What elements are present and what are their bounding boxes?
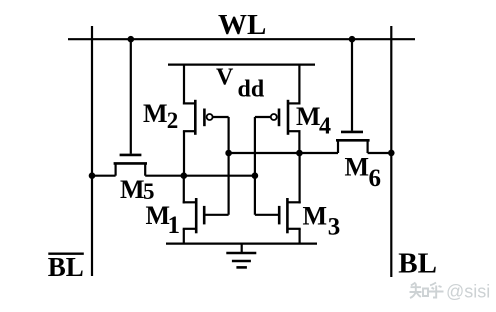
transistor M5 access (left) bbox=[114, 155, 147, 176]
svg-text:M: M bbox=[345, 152, 370, 181]
svg-text:4: 4 bbox=[319, 114, 331, 140]
node BL-M6 junction bbox=[388, 150, 395, 157]
svg-text:M: M bbox=[143, 99, 168, 128]
node WL-M6 junction bbox=[349, 36, 356, 43]
transistor M2 PMOS (left pull-up) bbox=[183, 65, 229, 177]
transistor M1 NMOS (left pull-down) bbox=[183, 176, 229, 244]
label Vdd bbox=[216, 65, 265, 103]
svg-text:2: 2 bbox=[167, 108, 179, 133]
node BLB-M5 junction bbox=[89, 172, 96, 179]
transistor M3 NMOS (right pull-down) bbox=[255, 153, 301, 244]
svg-text:1: 1 bbox=[168, 212, 181, 239]
svg-text:6: 6 bbox=[369, 165, 382, 192]
wire M6 gate stem bbox=[351, 39, 353, 131]
svg-text:M: M bbox=[146, 201, 171, 230]
label BLB (with overline) bbox=[48, 252, 84, 282]
node M4 drain junction bbox=[296, 150, 303, 157]
svg-text:@sisi: @sisi bbox=[446, 282, 490, 302]
svg-text:dd: dd bbox=[238, 76, 265, 102]
ground symbol bbox=[226, 244, 256, 268]
svg-text:V: V bbox=[216, 65, 234, 91]
transistor M6 access (right) bbox=[336, 132, 370, 153]
label M3 bbox=[303, 202, 341, 241]
node WL-M5 junction bbox=[128, 36, 135, 43]
wire cross-couple vertical B (gates of M4/M3 to left node) bbox=[254, 117, 256, 215]
label M5 bbox=[120, 175, 155, 204]
node M2/M1 drain junction bbox=[181, 172, 188, 179]
svg-text:3: 3 bbox=[328, 213, 341, 240]
wire WL horizontal word line bbox=[68, 38, 415, 40]
svg-text:M: M bbox=[296, 102, 321, 131]
label M2 bbox=[143, 99, 178, 133]
svg-text:M: M bbox=[303, 202, 328, 231]
wire cross-couple vertical A (gates of M2/M1 to right node) bbox=[228, 117, 230, 215]
wire ground rail bbox=[166, 243, 317, 245]
watermark bbox=[410, 282, 491, 302]
wire BL vertical bit line (right) bbox=[390, 26, 392, 277]
wire right storage node line bbox=[229, 152, 392, 154]
wire BLB vertical bit line (left) bbox=[91, 26, 93, 276]
label M6 bbox=[345, 152, 382, 192]
label M1 bbox=[146, 201, 181, 239]
wire M5 gate stem bbox=[130, 39, 132, 154]
wire left storage node line bbox=[92, 175, 255, 177]
svg-text:WL: WL bbox=[218, 9, 266, 41]
svg-text:BL: BL bbox=[48, 252, 84, 282]
wire Vdd rail bbox=[168, 63, 315, 65]
transistor M4 PMOS (right pull-up) bbox=[255, 65, 301, 153]
label M4 bbox=[296, 102, 331, 140]
node B junction on left node line bbox=[252, 172, 259, 179]
node A junction on right node line bbox=[225, 150, 232, 157]
svg-text:BL: BL bbox=[398, 248, 437, 280]
svg-text:M: M bbox=[120, 175, 145, 204]
